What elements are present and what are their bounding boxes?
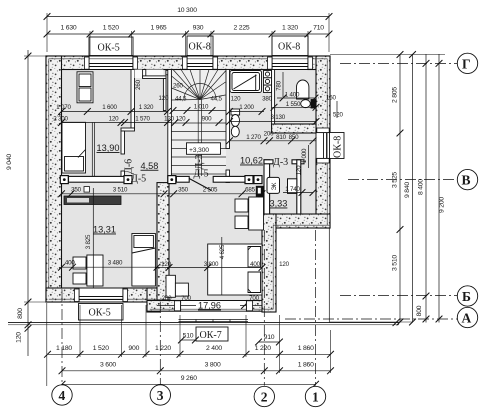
right dimension chains [399, 54, 401, 323]
window OK-8 top B [272, 56, 308, 70]
svg-text:930: 930 [193, 25, 204, 32]
extension lines from window jambs [90, 31, 308, 56]
svg-text:3 600: 3 600 [100, 361, 116, 368]
interior dim line y=111.5 [62, 111, 168, 113]
svg-text:1 320: 1 320 [282, 25, 298, 32]
svg-text:120: 120 [279, 261, 289, 268]
svg-text:1 010: 1 010 [194, 103, 209, 110]
svg-text:Д-5: Д-5 [131, 174, 146, 185]
interior dimension texts row y=107 [56, 104, 254, 111]
svg-text:1 740: 1 740 [285, 186, 300, 193]
partition bedroom1 right lower with door D-6 [121, 131, 125, 154]
svg-text:120: 120 [159, 95, 169, 102]
partition bath divider [272, 70, 275, 125]
svg-text:2 805: 2 805 [392, 87, 399, 103]
svg-text:685: 685 [245, 187, 255, 194]
stairwell white fill [172, 70, 227, 177]
washer column [264, 71, 272, 93]
svg-text:910: 910 [264, 334, 275, 341]
window OK-5 bottom [79, 288, 123, 302]
bottom dim row 3 [62, 383, 316, 385]
axis circle A [457, 307, 477, 327]
left exterior wall [46, 56, 62, 302]
svg-text:1 520: 1 520 [93, 345, 109, 352]
corridor dim chain [71, 187, 255, 194]
stairs [172, 70, 227, 177]
svg-text:9 260: 9 260 [181, 375, 197, 382]
top exterior wall [46, 56, 330, 70]
svg-text:810: 810 [276, 134, 286, 141]
axis circle B2 [457, 286, 477, 306]
svg-text:120: 120 [16, 332, 23, 343]
svg-text:1 965: 1 965 [150, 25, 166, 32]
svg-text:1 860: 1 860 [298, 345, 314, 352]
ground line [8, 322, 399, 324]
bottom dim row 1 [48, 353, 331, 355]
axis circle G [457, 53, 477, 73]
svg-text:350: 350 [178, 187, 188, 194]
svg-text:9 040: 9 040 [6, 154, 13, 170]
svg-text:3 480: 3 480 [108, 260, 123, 267]
stair hall door leaf [189, 179, 211, 191]
interior bearing wall between bedrooms [157, 183, 169, 300]
level mark +3,300 [187, 143, 221, 155]
kitchen table and chairs [235, 197, 264, 230]
window OK-7 bottom [181, 301, 247, 312]
toilet/bidet left column [231, 109, 240, 137]
bottom extension and axis lines [62, 230, 316, 386]
svg-text:2 300: 2 300 [53, 115, 68, 122]
axis circle 4 [52, 385, 72, 405]
furniture bedroom 17,96: bed 3 [208, 244, 262, 295]
axis circle 2 [254, 386, 274, 406]
svg-text:260: 260 [135, 79, 142, 89]
svg-text:3: 3 [157, 388, 164, 403]
svg-text:120: 120 [296, 165, 303, 175]
notch vertical wall [262, 214, 276, 312]
top dimension chain row 1 [47, 16, 329, 18]
svg-text:380: 380 [262, 96, 272, 103]
bed 1 [62, 122, 86, 173]
partition corridor/stairs [168, 70, 172, 183]
top connector right [330, 54, 445, 56]
interior dim line y=122.5 [62, 122, 172, 124]
step wall bottom-right [262, 214, 330, 228]
svg-text:200: 200 [264, 131, 274, 138]
duct closet white interiors [135, 70, 143, 79]
dresser bedroom3 [166, 275, 188, 297]
svg-text:1 320: 1 320 [139, 104, 154, 111]
svg-text:ОК-5: ОК-5 [98, 43, 120, 54]
svg-text:4 625: 4 625 [219, 244, 226, 259]
svg-text:800: 800 [17, 308, 24, 319]
svg-text:ОК-8: ОК-8 [189, 42, 211, 53]
shower tray [230, 71, 262, 93]
svg-text:2 505: 2 505 [203, 187, 218, 194]
svg-text:2 400: 2 400 [206, 345, 222, 352]
svg-text:В: В [462, 173, 471, 188]
svg-text:ОК-7: ОК-7 [200, 330, 222, 341]
svg-text:А: А [462, 310, 472, 325]
svg-text:510: 510 [183, 333, 194, 340]
interior bearing wall bathroom bottom [272, 124, 316, 133]
svg-text:1 400: 1 400 [285, 92, 300, 99]
bottom-left exterior wall [46, 288, 157, 302]
svg-text:3 510: 3 510 [392, 255, 399, 271]
furniture bedroom 13,90: wardrobe [77, 72, 93, 103]
svg-text:+3,300: +3,300 [189, 147, 209, 154]
svg-text:1 600: 1 600 [102, 104, 117, 111]
toilet right [301, 100, 316, 109]
svg-text:800: 800 [416, 305, 423, 316]
svg-text:260: 260 [173, 83, 183, 90]
svg-text:520: 520 [333, 112, 343, 119]
svg-text:13,90: 13,90 [97, 143, 120, 153]
svg-text:1 570: 1 570 [135, 115, 150, 122]
left dimension line 9040 [27, 50, 29, 356]
WC door leaf black [256, 186, 264, 197]
svg-text:1 550: 1 550 [286, 101, 301, 108]
svg-text:120: 120 [231, 96, 241, 103]
bed 2 [132, 234, 156, 287]
svg-text:3 800: 3 800 [204, 261, 219, 268]
jamb blocks corridor [60, 176, 68, 184]
step corner block [147, 288, 160, 312]
svg-text:3,33: 3,33 [270, 199, 288, 209]
svg-text:2: 2 [261, 390, 268, 405]
interior dim line bedroom1 [91, 122, 93, 176]
svg-text:1 220: 1 220 [155, 345, 171, 352]
svg-text:1 000: 1 000 [301, 148, 308, 163]
electric box EK [267, 177, 280, 193]
window OK-8 right [316, 133, 330, 159]
svg-text:1 630: 1 630 [60, 25, 76, 32]
svg-text:3 825: 3 825 [85, 234, 92, 249]
svg-text:900: 900 [202, 115, 212, 122]
interior dimension texts row y=118.5 [53, 114, 285, 122]
svg-text:150: 150 [326, 95, 336, 102]
bottom-middle exterior wall [147, 301, 276, 312]
desk and chairs [73, 255, 103, 286]
svg-text:2 225: 2 225 [233, 25, 249, 32]
svg-text:4: 4 [59, 388, 66, 403]
facade finish inner lines [49, 59, 330, 309]
furniture bedroom 13,31: dark dresser [64, 196, 121, 205]
svg-text:710: 710 [313, 25, 324, 32]
svg-text:10,62: 10,62 [240, 156, 263, 166]
axis circle 1 [305, 386, 325, 406]
svg-text:700: 700 [181, 295, 191, 302]
svg-text:1 220: 1 220 [255, 345, 271, 352]
svg-text:Б: Б [462, 289, 471, 304]
svg-text:200: 200 [162, 295, 172, 302]
axis lines right [285, 63, 457, 319]
svg-text:ЭК: ЭК [271, 182, 278, 190]
svg-text:Д-6: Д-6 [124, 159, 135, 174]
duct closet partitions [143, 70, 146, 79]
axis circle V [457, 169, 477, 189]
svg-text:ОК-5: ОК-5 [89, 308, 111, 319]
bottom dim row 2 [62, 370, 331, 372]
window OK-5 top [89, 56, 133, 70]
svg-text:1 520: 1 520 [103, 25, 119, 32]
WC walls [264, 160, 304, 214]
window OK-8 top A [187, 56, 213, 70]
right exterior wall [316, 56, 330, 228]
svg-text:1 180: 1 180 [56, 345, 72, 352]
svg-text:Д-3: Д-3 [273, 157, 288, 168]
window label boxes [79, 36, 345, 341]
svg-text:3 800: 3 800 [205, 361, 221, 368]
partition stairs/kitchen with door D-3 [226, 70, 230, 149]
svg-text:4,58: 4,58 [141, 161, 159, 171]
interior dim line bedroom2 [92, 188, 94, 288]
partition jog [121, 128, 135, 131]
svg-text:Д-3: Д-3 [194, 154, 205, 169]
corridor south wall segments [69, 176, 246, 182]
svg-text:44,5: 44,5 [175, 96, 187, 103]
svg-text:10 300: 10 300 [177, 7, 197, 14]
axis circle 3 [150, 385, 170, 405]
svg-text:ОК-8: ОК-8 [333, 136, 344, 158]
svg-text:13,31: 13,31 [93, 225, 116, 235]
svg-text:850: 850 [289, 134, 299, 141]
svg-text:120: 120 [176, 115, 186, 122]
svg-text:1 270: 1 270 [246, 134, 261, 141]
sink [297, 80, 309, 99]
svg-text:9 840: 9 840 [404, 182, 411, 198]
svg-text:ОК-8: ОК-8 [278, 42, 300, 53]
svg-text:1 200: 1 200 [239, 104, 254, 111]
svg-text:3 130: 3 130 [270, 114, 285, 121]
svg-text:780: 780 [276, 80, 283, 90]
svg-text:3 510: 3 510 [113, 187, 128, 194]
top dimension chain row 2 [47, 33, 329, 35]
svg-text:1 860: 1 860 [298, 361, 314, 368]
svg-text:Г: Г [462, 56, 471, 71]
svg-text:900: 900 [128, 345, 139, 352]
window jamb blocks [75, 57, 330, 311]
svg-text:17,96: 17,96 [198, 301, 221, 311]
svg-text:9 200: 9 200 [439, 197, 446, 213]
vent shaft [288, 179, 297, 194]
svg-text:120: 120 [109, 115, 119, 122]
svg-text:400: 400 [250, 261, 260, 268]
building interior fill [62, 70, 317, 301]
svg-text:8 400: 8 400 [418, 179, 425, 195]
svg-text:1: 1 [312, 390, 319, 405]
svg-text:44,5: 44,5 [211, 96, 223, 103]
partition bedroom1 right upper [131, 70, 135, 129]
interior dim line bedroom3 vertical [221, 237, 223, 295]
plinth edge below notch [328, 228, 330, 323]
